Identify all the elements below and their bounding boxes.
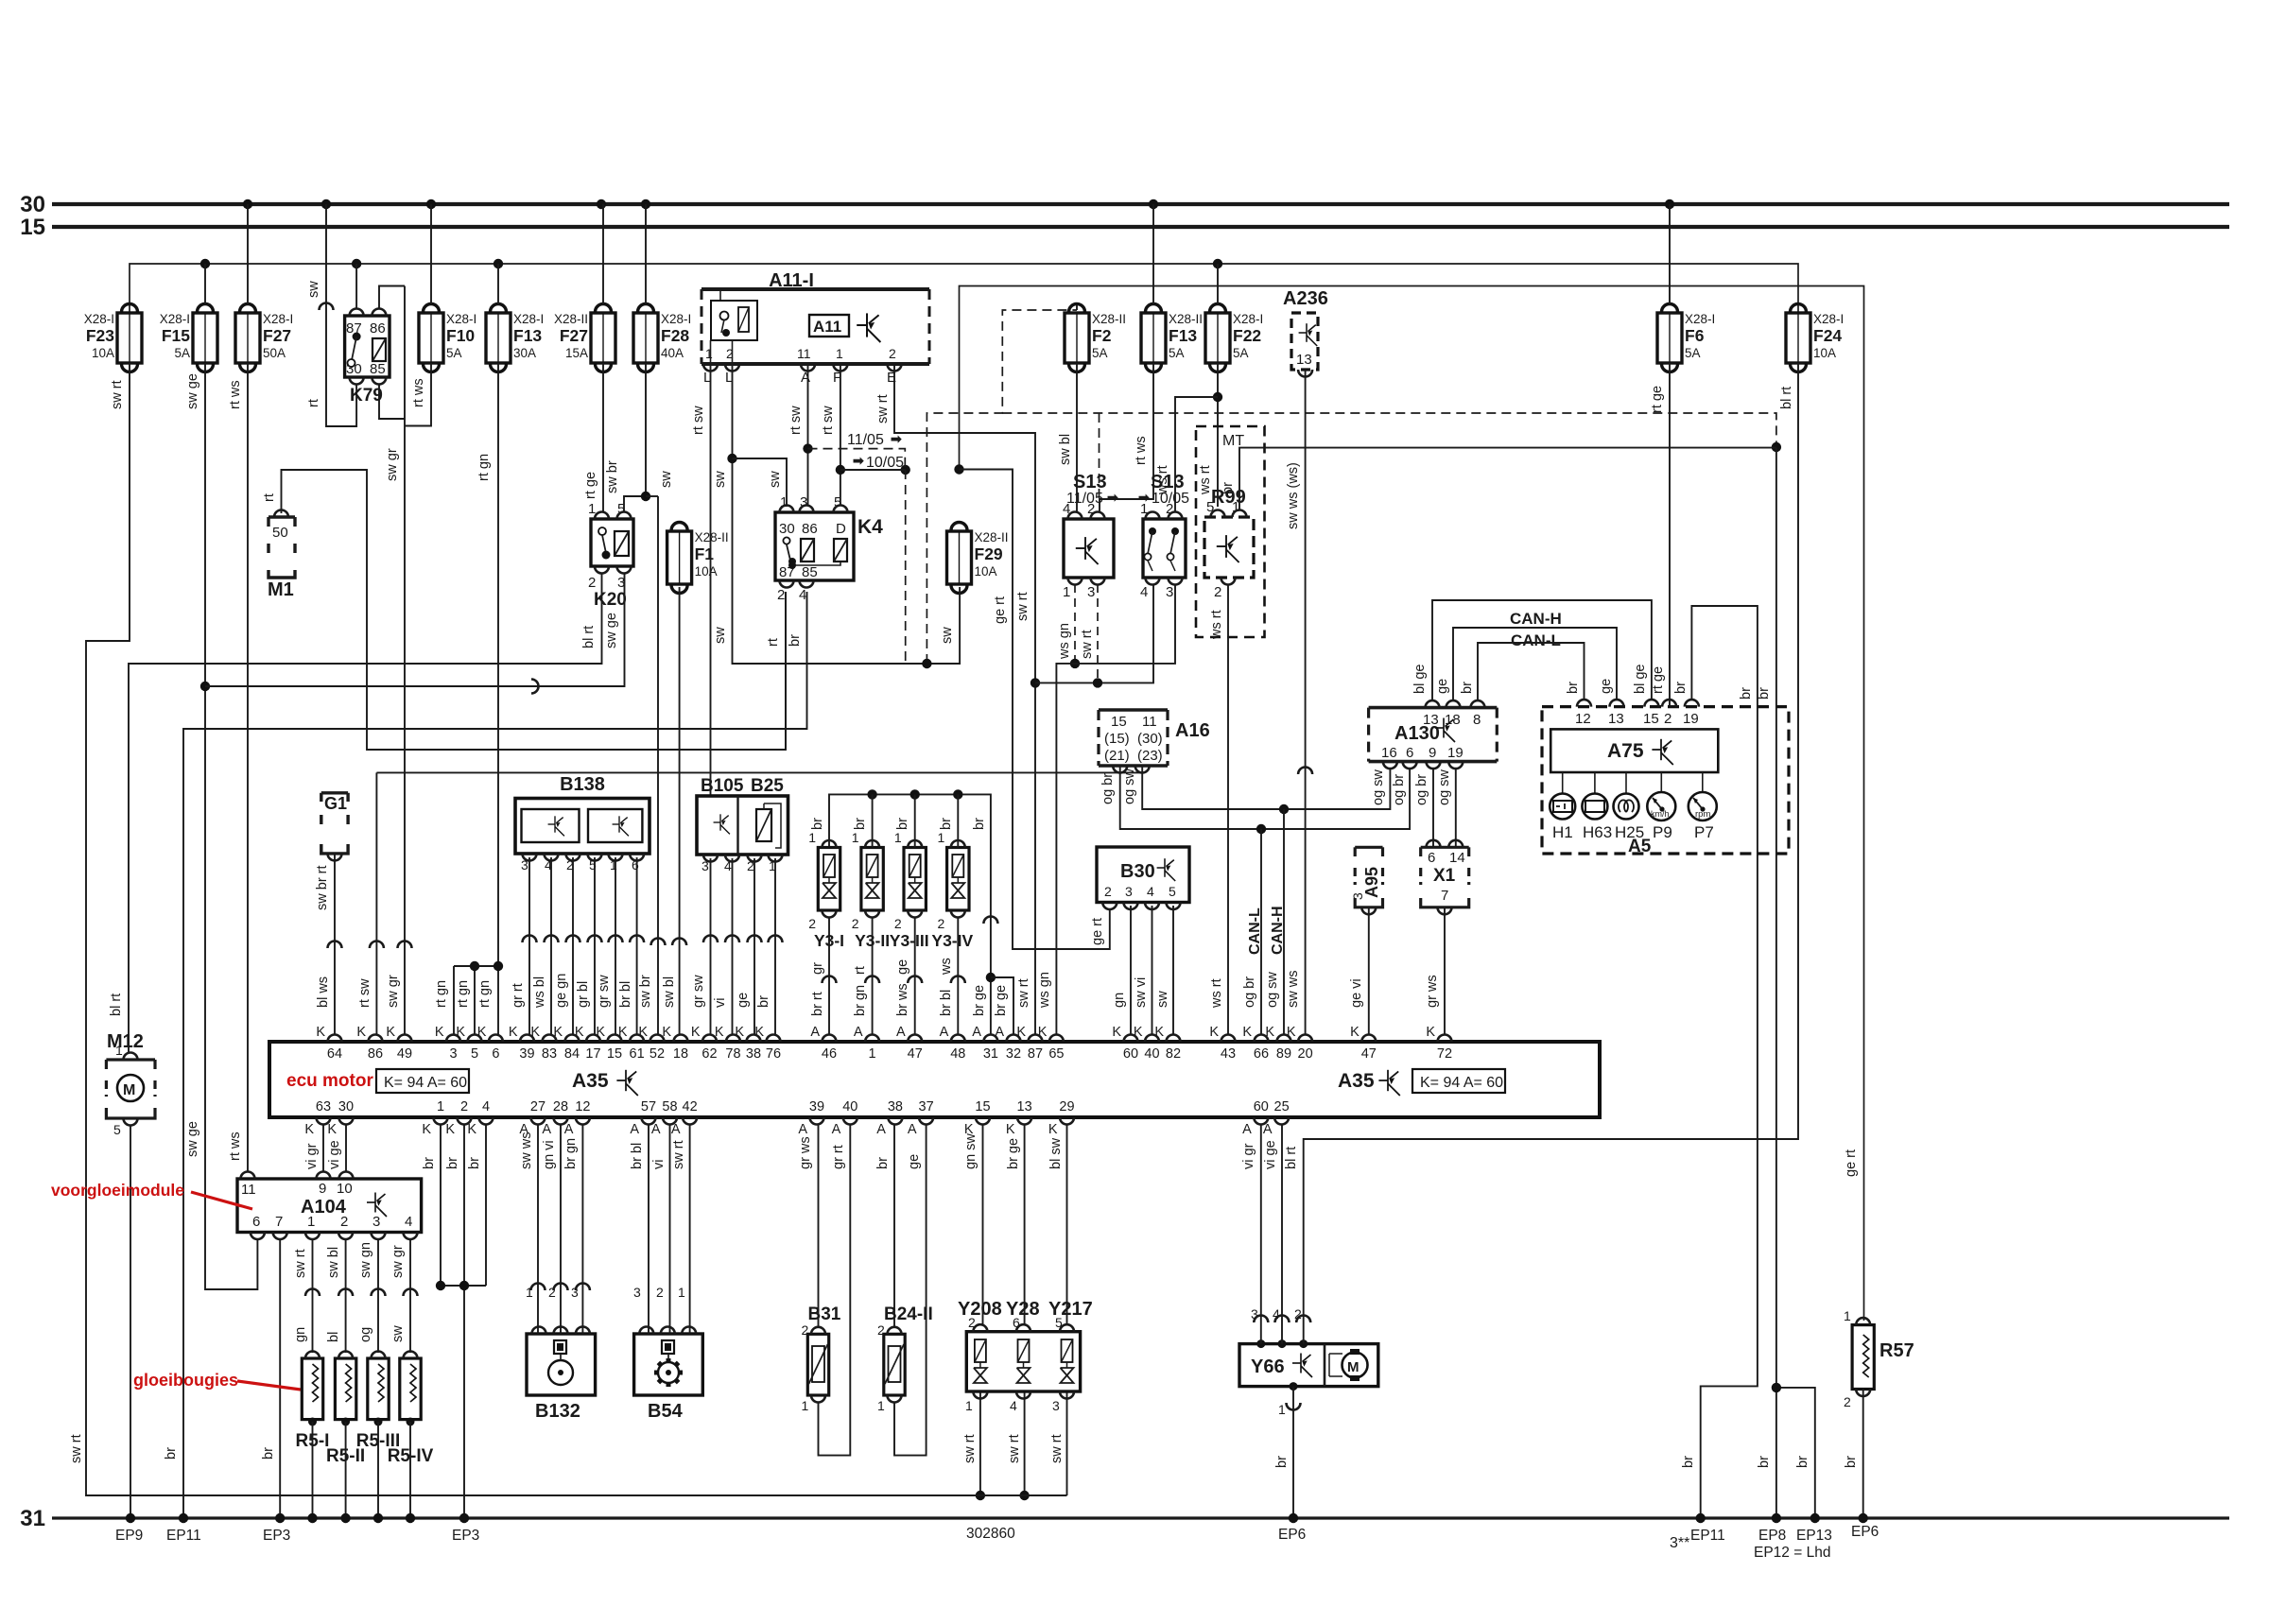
svg-text:29: 29 [1059, 1099, 1074, 1114]
switch S13 11/05 [1064, 519, 1114, 578]
svg-text:bl rt: bl rt [109, 993, 124, 1016]
svg-text:2: 2 [548, 1285, 556, 1300]
svg-text:br: br [1681, 1456, 1696, 1468]
connector A95 [1354, 847, 1357, 856]
svg-text:br: br [788, 634, 803, 647]
svg-text:3: 3 [1166, 584, 1173, 600]
svg-text:(23): (23) [1137, 748, 1163, 764]
svg-text:ge: ge [895, 959, 910, 975]
svg-text:P7: P7 [1694, 823, 1714, 841]
svg-text:K: K [477, 1025, 487, 1040]
wire A16-23 og sw net [1142, 766, 1390, 809]
svg-text:EP6: EP6 [1278, 1527, 1306, 1543]
wire K4-4 br to EP11 column [183, 592, 807, 1518]
svg-text:F10: F10 [446, 326, 475, 345]
wire F27-II top to bus30 [602, 204, 604, 304]
svg-text:K: K [456, 1025, 465, 1040]
svg-text:rt sw: rt sw [691, 406, 706, 435]
svg-text:1: 1 [1278, 1402, 1286, 1417]
svg-text:6: 6 [1406, 745, 1413, 761]
svg-text:br: br [1274, 1456, 1290, 1468]
svg-text:K: K [509, 1025, 518, 1040]
svg-text:A35: A35 [572, 1070, 609, 1092]
wire rt gn tee to ECU 3/5/6 [454, 965, 498, 967]
label K=94 A=60 left [376, 1069, 469, 1093]
svg-text:sw rt: sw rt [1015, 592, 1031, 621]
dashed 11/05 branch [808, 449, 906, 470]
svg-text:13: 13 [1296, 352, 1312, 368]
svg-text:K: K [1350, 1025, 1360, 1040]
svg-text:A: A [542, 1122, 551, 1137]
wire M12-5 to EP9 [130, 1125, 131, 1518]
wire B24-II pin2 to ECU [893, 1124, 895, 1327]
wire bottom rail right end up [953, 1494, 1067, 1496]
svg-text:sw: sw [940, 627, 955, 644]
svg-text:K: K [356, 1025, 366, 1040]
svg-text:vi ge: vi ge [1263, 1140, 1278, 1169]
svg-text:50: 50 [272, 525, 288, 541]
svg-text:15: 15 [1111, 714, 1127, 730]
red pointer line R5 [237, 1381, 301, 1390]
svg-text:5: 5 [471, 1046, 478, 1062]
svg-text:40: 40 [842, 1099, 857, 1114]
svg-text:43: 43 [1221, 1046, 1236, 1062]
svg-text:sw br: sw br [638, 975, 653, 1008]
wire branch to K4-1 [733, 458, 788, 506]
svg-text:3: 3 [1052, 1398, 1060, 1413]
sensor B30 [1097, 847, 1189, 903]
svg-text:EP3: EP3 [263, 1528, 290, 1544]
svg-text:A: A [651, 1122, 661, 1137]
svg-text:50A: 50A [263, 346, 286, 360]
glow plug R5-II [335, 1358, 355, 1420]
injector Y3-II [861, 848, 883, 911]
wire branch ws rt to S13b-2 [1175, 397, 1218, 512]
svg-text:sw ws (ws): sw ws (ws) [1286, 462, 1301, 529]
svg-text:1: 1 [1063, 584, 1070, 600]
svg-text:gr sw: gr sw [597, 975, 612, 1008]
svg-text:br: br [1460, 682, 1475, 694]
junction dot EP8 join [1772, 1383, 1781, 1392]
fuse F27 X28-II [591, 304, 615, 372]
svg-text:10A: 10A [92, 346, 114, 360]
svg-text:82: 82 [1166, 1046, 1181, 1062]
svg-text:ge: ge [907, 1154, 922, 1169]
wire K79-86 up-over to sw gr column [379, 286, 405, 310]
svg-text:EP6: EP6 [1851, 1524, 1879, 1540]
svg-text:6: 6 [1013, 1315, 1020, 1330]
wire G1 to ECU-64 [334, 854, 336, 1035]
svg-text:62: 62 [701, 1046, 717, 1062]
svg-text:6: 6 [492, 1046, 499, 1062]
terminals on bus 31 [126, 1513, 135, 1523]
junction dots br merge [436, 1281, 445, 1290]
wires Y3 pin1 risers [872, 794, 874, 847]
svg-text:voorgloeimodule: voorgloeimodule [51, 1181, 184, 1200]
svg-text:M: M [1347, 1359, 1360, 1375]
hop 52 [651, 939, 666, 945]
svg-text:10A: 10A [975, 564, 997, 579]
svg-text:sw rt: sw rt [1007, 1434, 1022, 1463]
svg-text:X28-II: X28-II [1092, 312, 1126, 326]
svg-text:sw br rt: sw br rt [315, 865, 330, 910]
svg-text:gr sw: gr sw [691, 975, 706, 1008]
junction dot br ge [986, 973, 996, 982]
svg-text:7: 7 [275, 1214, 283, 1230]
svg-text:40: 40 [1144, 1046, 1159, 1062]
svg-text:4: 4 [724, 858, 732, 873]
gauges in A5 [1562, 772, 1564, 794]
svg-text:➡: ➡ [1138, 490, 1150, 505]
svg-text:A: A [810, 1025, 820, 1040]
svg-text:sw bl: sw bl [326, 1247, 341, 1278]
svg-text:bl ws: bl ws [316, 976, 331, 1008]
sensor B54 [634, 1334, 703, 1395]
svg-text:ws rt: ws rt [1209, 610, 1224, 640]
wire F1 down to ECU-18 [679, 587, 681, 1035]
svg-text:1: 1 [437, 1099, 444, 1114]
svg-text:2: 2 [777, 587, 785, 603]
svg-text:5: 5 [617, 501, 625, 517]
svg-text:X28-I: X28-I [1685, 312, 1715, 326]
svg-text:K: K [1112, 1025, 1121, 1040]
junction dot dashed-EP8 [1772, 442, 1781, 452]
hop A236 wire [1298, 768, 1312, 774]
svg-text:CAN-H: CAN-H [1510, 610, 1562, 628]
wire M12 bl rt to K20-2 [129, 573, 602, 1053]
svg-text:R57: R57 [1879, 1340, 1914, 1361]
svg-text:2: 2 [1104, 884, 1112, 899]
svg-text:49: 49 [397, 1046, 412, 1062]
junction dots Y3 rail [867, 789, 876, 799]
junction dot sw K4-1 [727, 454, 736, 463]
svg-text:1: 1 [877, 1398, 885, 1413]
svg-text:br: br [810, 818, 825, 830]
svg-text:3: 3 [617, 575, 625, 591]
motor M12 [105, 1060, 108, 1069]
wires Y-block to ECU [982, 1124, 984, 1325]
svg-text:F13: F13 [1169, 326, 1197, 345]
svg-text:S13: S13 [1073, 472, 1107, 492]
svg-text:A: A [801, 370, 810, 386]
wire F6 top to bus30 [1669, 204, 1671, 304]
svg-text:rt ws: rt ws [411, 378, 426, 407]
svg-text:F: F [833, 370, 841, 386]
svg-text:K: K [386, 1025, 395, 1040]
svg-text:85: 85 [370, 361, 386, 377]
junction dots rt gn [470, 961, 479, 971]
svg-text:15: 15 [975, 1099, 990, 1114]
svg-text:3: 3 [521, 857, 528, 872]
svg-text:30: 30 [20, 192, 45, 217]
svg-text:br: br [1221, 482, 1236, 494]
svg-text:40A: 40A [661, 346, 684, 360]
svg-text:gr rt: gr rt [831, 1145, 846, 1169]
svg-text:48: 48 [950, 1046, 965, 1062]
wire F27-II down to K20-1 [602, 363, 604, 512]
svg-text:rt ws: rt ws [228, 380, 243, 409]
svg-text:sw ge: sw ge [604, 613, 619, 648]
svg-text:sw bl: sw bl [1058, 434, 1073, 465]
wire R99-2 ws rt to ECU-43 [1227, 584, 1229, 1035]
svg-text:K: K [316, 1025, 325, 1040]
hop 18 [672, 939, 686, 945]
svg-text:A35: A35 [1338, 1070, 1375, 1092]
hops Y3 pin2 [823, 976, 837, 984]
wire F13-II top to bus30 [1152, 204, 1154, 304]
svg-text:sw ws: sw ws [519, 1132, 534, 1169]
wire B31 pin2 to ECU [818, 1124, 820, 1327]
svg-text:og br: og br [1392, 774, 1407, 805]
wire F28 top to bus30 [645, 204, 647, 304]
svg-text:br: br [1757, 687, 1772, 700]
svg-text:br: br [1795, 1456, 1810, 1468]
injector Y3-IV [947, 848, 969, 911]
svg-text:A16: A16 [1175, 720, 1210, 741]
svg-text:km/h: km/h [1651, 809, 1670, 819]
fuse F15 X28-I [193, 304, 217, 372]
wires B132 to ECU [537, 1124, 539, 1334]
svg-text:ws rt: ws rt [1155, 465, 1170, 495]
svg-text:19: 19 [1683, 711, 1699, 727]
glow plug R5-IV [400, 1358, 421, 1420]
fuse F29 X28-II [947, 523, 972, 594]
svg-text:L: L [725, 370, 733, 386]
svg-text:F6: F6 [1685, 326, 1705, 345]
svg-text:gr ws: gr ws [1425, 975, 1440, 1008]
svg-text:4: 4 [405, 1214, 412, 1230]
wire F27 top to bus30 [247, 204, 249, 304]
wire K79-87 to rail [355, 264, 357, 309]
svg-text:K= 94 A= 60: K= 94 A= 60 [1420, 1075, 1503, 1091]
svg-text:4: 4 [799, 587, 806, 603]
svg-text:3: 3 [449, 1046, 457, 1062]
fuse F2 X28-II [1065, 304, 1089, 372]
svg-text:5: 5 [1169, 884, 1176, 899]
svg-text:15A: 15A [565, 346, 588, 360]
wire F13-II rt ws jog to S13-2 [1100, 363, 1153, 512]
svg-text:og sw: og sw [1437, 769, 1452, 805]
svg-text:K: K [553, 1025, 563, 1040]
junction dots on rail y279 [200, 259, 210, 268]
svg-text:P9: P9 [1653, 823, 1672, 841]
svg-text:CAN-L: CAN-L [1247, 907, 1263, 955]
svg-text:br ge: br ge [972, 985, 987, 1016]
svg-text:1: 1 [965, 1398, 973, 1413]
sensor B31 [807, 1334, 828, 1395]
svg-text:2: 2 [460, 1099, 468, 1114]
svg-text:5: 5 [1055, 1315, 1063, 1330]
svg-text:61: 61 [630, 1046, 645, 1062]
svg-text:sw ge: sw ge [185, 1121, 200, 1157]
svg-text:3: 3 [372, 1214, 380, 1230]
svg-text:63: 63 [316, 1099, 331, 1114]
svg-text:rt: rt [262, 493, 277, 502]
wire A11-F rt sw to K4-5 [840, 364, 841, 506]
svg-text:X1: X1 [1433, 866, 1456, 886]
ecu A11 inner label box [809, 315, 849, 337]
svg-text:F29: F29 [975, 544, 1003, 563]
wire R99-1 br to EP8 column [1239, 448, 1776, 510]
svg-text:EP8: EP8 [1758, 1528, 1786, 1544]
svg-text:CAN-H: CAN-H [1270, 906, 1286, 955]
resistor R57 [1852, 1325, 1874, 1390]
svg-text:br: br [1844, 1456, 1859, 1468]
svg-text:F13: F13 [513, 326, 542, 345]
hops A104 wires [305, 1289, 320, 1297]
wire K4-2 rt down-left [785, 592, 787, 750]
wires B138 to ECU [528, 857, 530, 1035]
svg-text:ge gn: ge gn [554, 974, 569, 1008]
svg-text:A: A [995, 1025, 1004, 1040]
svg-text:br: br [1757, 1456, 1772, 1468]
wires ECU 1/2/4 br merge [441, 1124, 486, 1286]
svg-text:ecu motor: ecu motor [286, 1071, 373, 1091]
svg-text:Y66: Y66 [1251, 1356, 1285, 1377]
svg-text:D: D [836, 521, 846, 537]
svg-text:85: 85 [802, 564, 818, 580]
svg-text:sw ws: sw ws [1286, 971, 1301, 1008]
svg-text:og sw: og sw [1122, 769, 1137, 804]
wire ECU-52 sw br [657, 496, 659, 1035]
svg-text:K: K [1242, 1025, 1252, 1040]
svg-text:A: A [972, 1025, 981, 1040]
svg-text:sw gn: sw gn [358, 1242, 373, 1278]
ecu A236 [1291, 313, 1318, 370]
svg-text:bl rt: bl rt [1779, 387, 1794, 409]
svg-text:sw: sw [306, 281, 321, 298]
svg-text:302860: 302860 [966, 1526, 1015, 1542]
svg-text:K: K [691, 1025, 701, 1040]
hop G1 wire [328, 942, 342, 949]
svg-text:rt sw: rt sw [788, 406, 804, 435]
svg-text:25: 25 [1274, 1099, 1290, 1114]
svg-text:gr: gr [810, 962, 825, 975]
svg-text:1: 1 [526, 1285, 533, 1300]
hops B138 wires [523, 936, 537, 943]
svg-text:K: K [1038, 1025, 1048, 1040]
svg-text:7: 7 [1441, 888, 1448, 904]
svg-text:Y3-IV: Y3-IV [931, 931, 973, 950]
svg-text:3: 3 [701, 858, 709, 873]
svg-text:ge rt: ge rt [993, 596, 1008, 624]
svg-text:gn: gn [293, 1327, 308, 1342]
svg-text:B25: B25 [751, 776, 784, 796]
svg-text:4: 4 [1147, 884, 1154, 899]
svg-text:15: 15 [20, 215, 45, 240]
svg-text:38: 38 [888, 1099, 903, 1114]
svg-text:br ge: br ge [1006, 1138, 1021, 1169]
ecu A35 box [269, 1042, 1600, 1117]
svg-text:sw vi: sw vi [1134, 977, 1149, 1008]
svg-text:84: 84 [564, 1046, 580, 1062]
fuse F10 X28-I [419, 304, 443, 372]
svg-text:br bl: br bl [939, 990, 954, 1016]
svg-text:K: K [754, 1025, 764, 1040]
svg-text:2: 2 [1214, 584, 1221, 600]
wire F15 sw ge down to K20-3 and A104-6 [205, 363, 257, 1289]
wire M1-50 to K4-87 [282, 470, 787, 750]
wire A11-E sw rt to ECU-87 [894, 364, 1035, 1035]
svg-text:gr ws: gr ws [798, 1136, 813, 1169]
svg-text:EP9: EP9 [115, 1528, 143, 1544]
svg-text:og: og [358, 1327, 373, 1342]
svg-text:A5: A5 [1628, 837, 1652, 856]
svg-text:3: 3 [633, 1285, 641, 1300]
svg-text:42: 42 [683, 1099, 698, 1114]
svg-text:A: A [1263, 1122, 1273, 1137]
junction dot 1105 [803, 443, 812, 453]
fuse F13 X28-II [1141, 304, 1166, 372]
svg-text:bl rt: bl rt [1284, 1147, 1299, 1169]
svg-text:EP11: EP11 [166, 1528, 201, 1544]
svg-text:br: br [895, 818, 910, 830]
svg-text:18: 18 [673, 1046, 688, 1062]
svg-text:bl ge: bl ge [1633, 665, 1648, 694]
svg-text:15: 15 [1643, 711, 1659, 727]
svg-text:bl sw: bl sw [1048, 1137, 1064, 1169]
svg-text:➡: ➡ [1107, 490, 1118, 505]
svg-text:A75: A75 [1607, 740, 1644, 762]
svg-text:sw rt: sw rt [293, 1249, 308, 1278]
fuse F27 X28-I [235, 304, 260, 372]
svg-text:1: 1 [869, 1046, 876, 1062]
svg-text:M1: M1 [268, 579, 294, 600]
svg-text:bl ge: bl ge [1412, 665, 1428, 694]
wire starter sig to A16 [376, 771, 1142, 773]
svg-text:gn vi: gn vi [542, 1140, 557, 1169]
svg-text:A: A [671, 1122, 681, 1137]
svg-text:4: 4 [1010, 1398, 1017, 1413]
hop on sw wire [320, 303, 334, 310]
wire bus 15 [52, 225, 2229, 229]
svg-text:A95: A95 [1362, 867, 1381, 898]
wire A95-3 ge vi to ECU-47 [1368, 907, 1370, 1035]
fuse F22 X28-I [1205, 304, 1230, 372]
svg-text:52: 52 [650, 1046, 665, 1062]
wire EP8 br column [1775, 448, 1777, 1518]
wire Y3 br rail [829, 794, 991, 1035]
svg-text:1: 1 [588, 501, 596, 517]
svg-text:sw rt: sw rt [1049, 1434, 1065, 1463]
svg-text:B54: B54 [648, 1401, 684, 1422]
svg-text:3**: 3** [1670, 1535, 1689, 1551]
svg-text:3: 3 [571, 1285, 579, 1300]
svg-text:86: 86 [802, 521, 818, 537]
svg-text:ge: ge [736, 993, 751, 1008]
fuse F6 X28-I [1657, 304, 1682, 372]
svg-text:K: K [327, 1122, 337, 1137]
svg-text:2: 2 [1664, 711, 1671, 727]
svg-text:K4: K4 [857, 516, 883, 538]
svg-text:4: 4 [1273, 1306, 1280, 1322]
svg-text:20: 20 [1298, 1046, 1313, 1062]
svg-text:83: 83 [542, 1046, 557, 1062]
svg-text:R5-IV: R5-IV [388, 1446, 434, 1466]
svg-text:K: K [1265, 1025, 1274, 1040]
svg-text:F15: F15 [162, 326, 190, 345]
svg-text:9: 9 [1429, 745, 1436, 761]
svg-text:K: K [1209, 1025, 1219, 1040]
dashed variant frame [927, 310, 1077, 664]
wire EP13 br column [1776, 1388, 1815, 1518]
svg-text:vi: vi [651, 1160, 667, 1169]
svg-text:2: 2 [747, 858, 754, 873]
svg-text:15: 15 [607, 1046, 622, 1062]
svg-text:sw rt: sw rt [1016, 978, 1031, 1008]
hops Y66 [1254, 1316, 1268, 1323]
wire feeder rail y302 [960, 286, 1864, 1322]
